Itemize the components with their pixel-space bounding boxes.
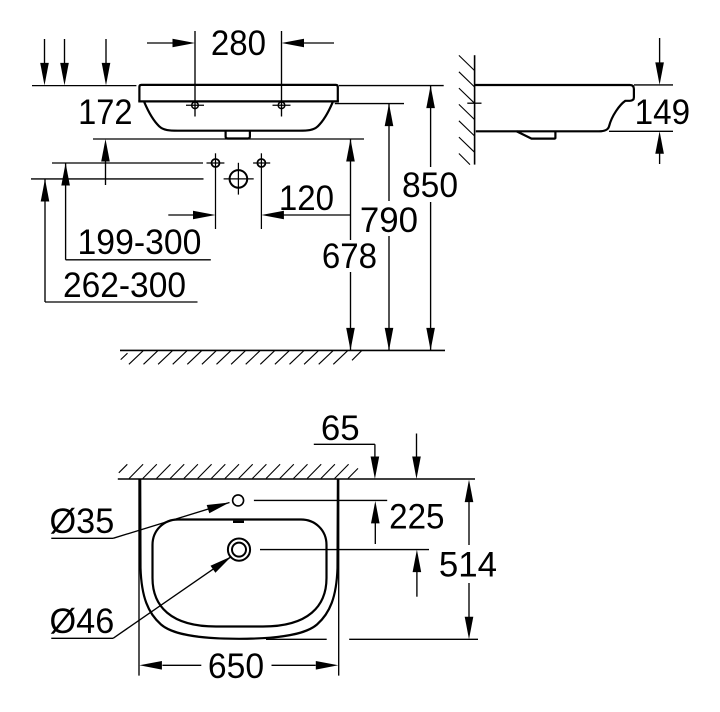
dimension 678: value label [322, 237, 377, 276]
svg-text:650: 650 [208, 647, 264, 686]
svg-text:Ø46: Ø46 [50, 602, 115, 641]
dimension 120: right arrow [261, 211, 350, 220]
dimension 514: value label [439, 545, 497, 584]
svg-text:149: 149 [635, 93, 690, 132]
dimension 280: extension lines [195, 31, 282, 117]
drain hole center line (front view) [31, 178, 204, 180]
dimension 262-300: value label [63, 266, 186, 305]
dimension 678: dimension line with arrows [346, 139, 355, 350]
dimension 149: value label [635, 93, 690, 132]
dimension 790: extension line [335, 103, 404, 105]
dimension 120: value label [279, 179, 334, 218]
plan view: wall line [118, 478, 475, 480]
plan view: overflow notch [233, 521, 244, 523]
mounting hole left [207, 153, 225, 229]
dimension 790: value label [360, 201, 418, 240]
front view: basin rim outline [138, 85, 339, 102]
top-left chain down arrow 2 (199-300) [60, 39, 69, 85]
dimension 199-300: value label [78, 223, 202, 262]
faucet hole extension line [254, 499, 387, 501]
dimension 650: dimension line with arrows [139, 661, 338, 670]
dimension 199-300: arrow and leader [61, 163, 211, 260]
dimension 790: dimension line with arrows [385, 104, 394, 351]
dimension 172: up arrow [101, 139, 110, 185]
label diameter 35: leader arrow [113, 503, 229, 539]
plan view: wall hatching [119, 464, 358, 478]
plan view: basin outer outline [140, 480, 338, 639]
dimension 514: dimension line with arrows [465, 480, 474, 640]
dimension 850: value label [402, 166, 458, 205]
side view: drain trap profile [517, 131, 556, 138]
front view: extension line below basin [93, 138, 364, 140]
top-left chain down arrow 3 (172) [102, 39, 111, 85]
svg-text:514: 514 [439, 545, 497, 584]
plan view: faucet hole [233, 495, 244, 506]
front view: basin top level line (arrow landing line) [32, 85, 136, 87]
label diameter 46: text and underline [50, 602, 115, 641]
dimension 65: value label [321, 409, 360, 448]
plan view: front edge extension line [266, 638, 478, 640]
side view: wall hatching [459, 55, 475, 164]
front view: basin bowl outline [144, 102, 332, 131]
svg-text:790: 790 [360, 201, 418, 240]
svg-text:Ø35: Ø35 [50, 502, 115, 541]
mounting hole right [253, 153, 270, 229]
svg-text:225: 225 [389, 498, 444, 537]
dimension 850: dimension line with arrows [426, 86, 435, 351]
label diameter 46: leader arrow [113, 556, 231, 638]
dimension 149: arrows [655, 38, 664, 164]
top-left chain down arrow 1 (262-300) [40, 39, 49, 85]
side view: basin profile [475, 85, 634, 131]
dimension 225: bottom arrow [413, 550, 422, 597]
floor line (front view) [120, 349, 445, 351]
dimension 280: right arrow [282, 39, 335, 48]
dimension 65: bottom arrow [371, 501, 380, 544]
dimension 149: extension lines [609, 85, 673, 131]
side view: rim level tick at wall [467, 102, 481, 104]
dimension 850: extension line [339, 85, 444, 87]
front view: drain trap tail [226, 131, 250, 138]
dimension 280: left arrow [147, 39, 195, 48]
svg-text:120: 120 [279, 179, 334, 218]
svg-text:850: 850 [402, 166, 458, 205]
svg-text:678: 678 [322, 237, 377, 276]
drain hole (front view) [224, 163, 254, 195]
dimension 225: top arrow [412, 434, 421, 480]
svg-text:172: 172 [78, 93, 132, 132]
floor hatching [121, 351, 362, 365]
dimension 120: left arrow [168, 211, 215, 220]
dimension 650: right extension line [338, 479, 340, 676]
dimension 172: value label [78, 93, 132, 132]
dimension 650: left extension line [138, 479, 140, 676]
label diameter 35: text and underline [50, 502, 115, 541]
dimension 280: value label [211, 24, 266, 63]
front view: faucet hole marks on rim [186, 102, 291, 109]
svg-text:280: 280 [211, 24, 266, 63]
svg-text:65: 65 [321, 409, 360, 448]
dimension 650: value label [208, 647, 264, 686]
svg-text:262-300: 262-300 [63, 266, 186, 305]
plan view: drain hole [228, 539, 250, 561]
svg-text:199-300: 199-300 [78, 223, 202, 262]
drain hole extension line [260, 549, 429, 551]
dimension 65: leader and top arrow [314, 444, 379, 479]
plan view: inner bowl outline [153, 520, 327, 627]
dimension 262-300: arrow and leader [41, 179, 198, 302]
side view: wall line [474, 55, 476, 164]
mounting holes center line [52, 162, 203, 164]
dimension 225: value label [389, 498, 444, 537]
